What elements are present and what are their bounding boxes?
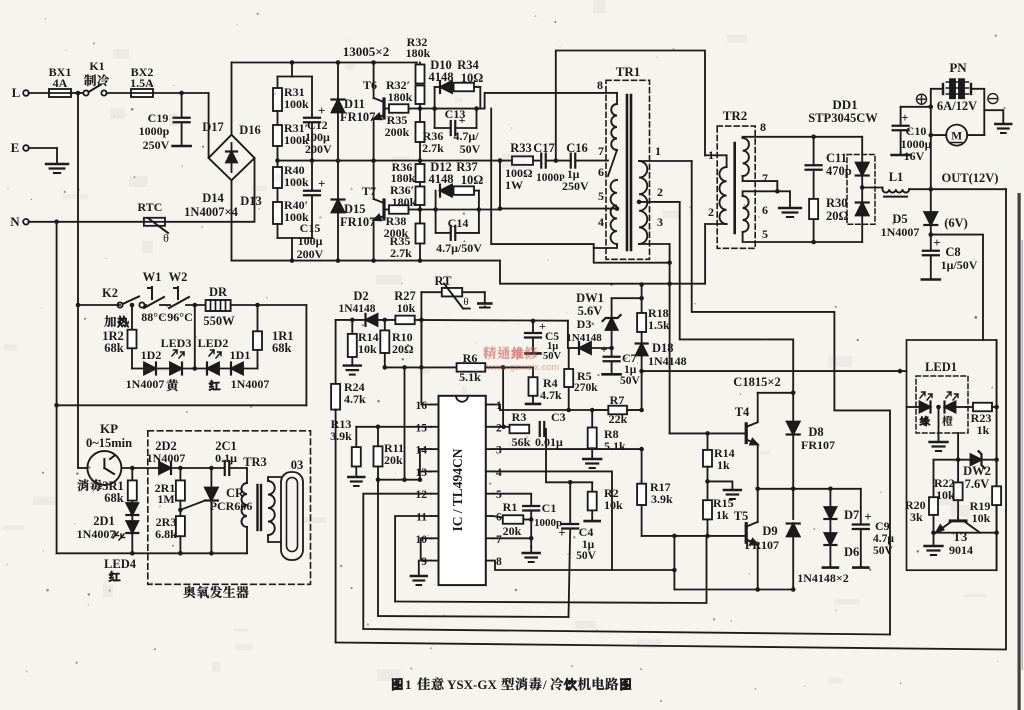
TR3 secondary <box>268 481 275 535</box>
wire <box>705 154 717 156</box>
node <box>929 187 934 192</box>
svg-text:6.8k: 6.8k <box>155 527 177 541</box>
capacitor C7 <box>611 348 613 356</box>
wire rail from BX1 node down to K2 <box>77 93 79 305</box>
svg-text:FR107: FR107 <box>340 215 375 229</box>
resistor R40 <box>273 167 282 188</box>
svg-text:4148: 4148 <box>429 70 454 84</box>
node <box>290 60 295 65</box>
wire C13 branch down-right <box>491 109 669 263</box>
wire bridge+ up to top bus <box>231 63 233 135</box>
node <box>568 480 573 485</box>
LED green <box>920 402 931 413</box>
svg-text:5.6V: 5.6V <box>578 304 603 318</box>
timer clock <box>87 451 121 485</box>
resistor R8 <box>591 410 593 428</box>
node <box>130 303 135 308</box>
node <box>275 158 280 163</box>
wire <box>419 104 421 122</box>
svg-text:200V: 200V <box>305 142 332 156</box>
resistor R3 <box>510 425 530 434</box>
diode 2D2 <box>159 462 171 474</box>
wire pin4 row <box>493 471 613 570</box>
motor M <box>946 125 967 146</box>
node <box>609 346 614 351</box>
resistor R27 <box>395 316 414 325</box>
svg-text:1D2: 1D2 <box>141 348 162 362</box>
svg-text:D17: D17 <box>202 120 224 134</box>
TR1 core <box>626 95 629 250</box>
svg-text:+: + <box>318 176 325 191</box>
wire R6 right down <box>485 366 533 368</box>
wire <box>604 92 618 94</box>
resistor 1R2 <box>131 305 133 330</box>
pin 15 stub <box>431 426 439 428</box>
resistor R17 <box>637 484 646 505</box>
diode D6 <box>824 533 836 545</box>
pin 11 stub <box>431 515 439 517</box>
resistor R32 <box>416 65 425 84</box>
node <box>193 366 198 371</box>
capacitor C13 <box>434 109 436 128</box>
transformer TR2 box <box>717 126 755 248</box>
wire <box>435 108 485 110</box>
wire PN left <box>931 89 943 135</box>
wire TR2 pin7 to gnd <box>743 176 778 191</box>
zener DW2 <box>971 454 982 465</box>
svg-text:D15: D15 <box>344 202 366 216</box>
svg-text:D7: D7 <box>844 508 859 522</box>
switch K2 <box>117 302 122 307</box>
wire <box>194 305 196 369</box>
pin 16 stub <box>431 404 439 406</box>
node <box>376 477 381 482</box>
svg-text:03: 03 <box>291 458 304 472</box>
node <box>554 158 559 163</box>
caption <box>392 679 402 691</box>
svg-text:FR107: FR107 <box>801 438 835 452</box>
TR1 secondary coil <box>639 161 647 244</box>
diode D12 <box>440 185 452 197</box>
LED4 <box>126 521 138 533</box>
node <box>418 207 423 212</box>
svg-text:2: 2 <box>496 422 502 434</box>
svg-text:15: 15 <box>416 422 428 434</box>
wire pin16 up <box>421 292 431 404</box>
ground LED mid <box>938 407 940 442</box>
pin 2 stub <box>486 426 493 428</box>
wire <box>907 406 919 408</box>
diode D9 <box>792 489 794 519</box>
diode D15 <box>337 161 339 199</box>
node <box>705 534 710 539</box>
svg-text:16V: 16V <box>904 149 925 163</box>
wire right edge rail <box>996 340 998 570</box>
svg-text:13: 13 <box>416 467 428 479</box>
transformer TR1 box <box>606 80 650 259</box>
wire C17C16 junction top loop <box>556 51 705 161</box>
svg-text:D11: D11 <box>344 97 365 111</box>
capacitor C12 <box>311 77 313 118</box>
wire heater loop bottom <box>57 404 307 406</box>
node <box>376 425 381 430</box>
label 加热 <box>104 315 116 327</box>
rectifier DD1 box <box>847 155 875 225</box>
svg-text:1N4007: 1N4007 <box>881 225 920 239</box>
thermistor RT <box>421 291 441 293</box>
resistor R36p 180k <box>416 187 425 206</box>
wire <box>419 182 421 187</box>
svg-text:LED2: LED2 <box>198 336 229 350</box>
node <box>130 551 135 556</box>
svg-text:C11: C11 <box>826 151 847 165</box>
wire <box>641 371 643 410</box>
wire pin3 row <box>493 448 642 450</box>
pin 14 stub <box>431 448 439 450</box>
diode DD1 top <box>856 163 869 176</box>
svg-text:D16: D16 <box>239 123 261 137</box>
wire N row <box>29 221 144 223</box>
wire bottom sterilize rail <box>57 552 247 554</box>
ground mid <box>708 481 733 490</box>
svg-text:STP3045CW: STP3045CW <box>808 111 878 125</box>
diode D5 <box>930 189 932 212</box>
wire pin5 row <box>493 494 532 505</box>
node <box>498 206 503 211</box>
svg-text:200V: 200V <box>297 247 324 261</box>
svg-text:0.1μ: 0.1μ <box>215 451 237 465</box>
node <box>566 408 571 413</box>
resistor 1R1 <box>257 305 259 331</box>
svg-text:OUT(12V): OUT(12V) <box>942 171 999 185</box>
wire bottom row4 outer <box>336 189 1006 649</box>
svg-text:2: 2 <box>708 205 714 219</box>
svg-text:T7: T7 <box>362 184 376 198</box>
svg-text:C15: C15 <box>300 221 321 235</box>
svg-text:PN: PN <box>949 60 967 75</box>
node <box>371 258 376 263</box>
svg-text:12: 12 <box>416 489 428 501</box>
pin 4 stub <box>486 470 493 472</box>
resistor R15 <box>707 481 709 500</box>
switch K1 <box>83 90 88 95</box>
minus terminal <box>988 94 998 104</box>
svg-text:180k: 180k <box>406 46 431 60</box>
TR1 primary coil upper <box>611 104 617 150</box>
ground T3 <box>933 533 935 546</box>
wire mid row to right <box>860 488 862 490</box>
svg-text:+: + <box>601 342 608 356</box>
svg-text:4.7μ: 4.7μ <box>873 533 894 545</box>
wire <box>277 224 279 238</box>
svg-text:5: 5 <box>496 489 502 501</box>
svg-text:3.9k: 3.9k <box>651 492 673 506</box>
wire TR2 pin6 <box>743 191 778 196</box>
svg-text:C4: C4 <box>579 525 594 539</box>
TR2 primary coil <box>719 167 726 224</box>
svg-text:4.7μ/50V: 4.7μ/50V <box>436 241 482 255</box>
svg-text:D14: D14 <box>202 191 224 205</box>
node <box>432 106 437 111</box>
wire pin7 row <box>493 537 532 539</box>
pin 6 stub <box>486 515 493 517</box>
svg-text:YSX-GX: YSX-GX <box>447 677 497 692</box>
wire T3 row <box>934 532 997 534</box>
node <box>350 318 355 323</box>
capacitor C14 <box>435 210 437 233</box>
svg-text:N: N <box>10 214 20 229</box>
node <box>178 466 183 471</box>
wire T4 emitter down <box>757 445 759 522</box>
capacitor C11 <box>813 137 815 164</box>
label 奥氧发生器 <box>183 586 195 598</box>
wire TR2 pin8 rail <box>743 137 863 138</box>
svg-text:9: 9 <box>421 556 427 568</box>
node <box>791 487 796 492</box>
svg-text:R1: R1 <box>503 500 518 514</box>
capacitor C15 <box>311 161 313 190</box>
ground PN minus <box>995 123 1011 125</box>
wire <box>186 304 206 306</box>
diode D3 <box>579 342 591 354</box>
svg-text:1k: 1k <box>977 423 990 437</box>
svg-text:4.7μ/: 4.7μ/ <box>453 129 479 143</box>
resistor R11 <box>377 427 379 447</box>
node <box>178 508 183 513</box>
label 消毒 <box>77 479 88 491</box>
wire OUT rail <box>909 188 1006 190</box>
resistor 2R1 <box>179 468 181 480</box>
svg-text:LED4: LED4 <box>104 557 137 571</box>
node <box>956 457 961 462</box>
capacitor C17 <box>540 154 542 168</box>
diode D8 <box>792 393 794 421</box>
resistor R5 <box>568 348 570 369</box>
wire DW1 top row <box>612 297 642 299</box>
svg-text:C9: C9 <box>875 519 890 533</box>
svg-text:100k: 100k <box>284 97 309 111</box>
wire <box>107 92 132 94</box>
svg-text:1N4148×2: 1N4148×2 <box>797 571 849 585</box>
LED3 <box>170 363 182 375</box>
wire pin8 row <box>493 561 675 570</box>
svg-text:22k: 22k <box>609 412 628 426</box>
wire bridge right to N <box>254 158 256 222</box>
svg-text:W2: W2 <box>169 270 188 284</box>
node <box>419 318 424 323</box>
svg-text:8: 8 <box>760 120 766 134</box>
wire pin11 <box>395 516 431 602</box>
svg-text:θ: θ <box>463 296 468 308</box>
svg-text:3k: 3k <box>910 510 923 524</box>
diode 1D1 <box>231 363 243 375</box>
svg-text:1D1: 1D1 <box>230 348 251 362</box>
svg-text:R5: R5 <box>577 369 592 383</box>
wire <box>78 467 87 469</box>
wire <box>861 176 863 204</box>
pin 3 stub <box>486 448 493 450</box>
wire 12V rail down <box>930 135 932 189</box>
svg-text:C16: C16 <box>566 141 588 155</box>
transistor T4 <box>745 424 748 443</box>
node E terminal <box>23 145 29 151</box>
wire pin6 row <box>493 516 503 518</box>
svg-text:K2: K2 <box>102 286 118 300</box>
diode 1D2 <box>144 363 156 375</box>
svg-text:1N4007: 1N4007 <box>231 377 270 391</box>
svg-text:50V: 50V <box>543 351 562 362</box>
wire pin13 lower row <box>378 479 420 481</box>
zener DW1 <box>611 330 613 348</box>
TR2 secondary lower <box>743 196 749 232</box>
svg-text:TR2: TR2 <box>723 108 748 123</box>
diode D10 <box>435 86 439 88</box>
svg-text:13005×2: 13005×2 <box>343 44 389 59</box>
svg-text:RTC: RTC <box>138 200 163 214</box>
transformer TR3 primary <box>246 468 248 483</box>
LED1 dashed box <box>916 376 968 433</box>
transistor T5 <box>745 524 748 543</box>
resistor R20 <box>933 460 935 498</box>
wire <box>153 92 209 94</box>
svg-text:10k: 10k <box>604 498 623 512</box>
svg-text:T4: T4 <box>735 405 750 419</box>
svg-text:6: 6 <box>598 165 604 179</box>
svg-text:1000: 1000 <box>536 172 559 184</box>
wire <box>419 205 421 224</box>
node <box>936 405 941 410</box>
node <box>994 405 999 410</box>
ground C1R1 <box>530 547 532 553</box>
wire C3 right down <box>545 429 592 482</box>
wire mid-bus to TR1 pin5 <box>500 161 608 209</box>
svg-text:+: + <box>864 509 871 524</box>
node <box>529 517 534 522</box>
node <box>639 282 644 287</box>
ground E <box>56 148 58 164</box>
node <box>178 551 183 556</box>
svg-text:+: + <box>459 113 466 127</box>
resistor R23 <box>966 406 973 408</box>
wire pin12 <box>363 494 431 629</box>
svg-text:7.6V: 7.6V <box>965 477 990 491</box>
battery PN <box>950 79 955 98</box>
svg-text:D8: D8 <box>808 425 823 439</box>
ground TR2 center tap <box>777 190 790 192</box>
pin 5 stub <box>486 493 493 495</box>
svg-text:1N4007: 1N4007 <box>147 451 186 465</box>
wire pin2 row <box>493 426 510 428</box>
resistor R10 <box>384 320 386 331</box>
resistor R31 <box>277 77 279 89</box>
ozone tube 03 <box>281 472 303 560</box>
node <box>755 487 760 492</box>
wire K2 rail down to timer <box>77 305 79 468</box>
svg-text:FR107: FR107 <box>340 110 375 124</box>
scan noise speckles <box>331 108 333 110</box>
capacitor C19 <box>181 93 183 117</box>
wire top bus <box>232 62 418 64</box>
wire TR1 pin3 <box>639 243 670 245</box>
svg-text:E: E <box>11 140 20 155</box>
resistor R36 2.7k <box>416 122 425 142</box>
resistor 2R3 <box>179 501 181 516</box>
bridge rectifier D13-D17 <box>209 135 255 181</box>
svg-text:5.1k: 5.1k <box>459 370 481 384</box>
svg-text:50V: 50V <box>620 375 641 387</box>
node <box>209 466 214 471</box>
svg-text:DR: DR <box>209 285 228 299</box>
svg-text:0~15min: 0~15min <box>86 436 132 450</box>
plus terminal <box>917 94 927 104</box>
resistor R4 <box>532 367 534 377</box>
capacitor C1 <box>523 505 539 507</box>
pin 12 stub <box>431 493 439 495</box>
pin 1 stub <box>486 404 493 406</box>
svg-text:D5: D5 <box>892 212 907 226</box>
fuse BX1 <box>49 89 71 97</box>
node <box>705 479 710 484</box>
svg-text:DD1: DD1 <box>832 97 857 112</box>
node <box>54 220 59 225</box>
svg-text:1.5A: 1.5A <box>130 76 154 90</box>
svg-text:96°C: 96°C <box>167 310 192 324</box>
wire <box>420 320 422 368</box>
wire <box>29 147 58 149</box>
wire TR2 pin5 rail <box>743 232 863 242</box>
wire <box>231 467 247 469</box>
svg-text:D3: D3 <box>577 317 592 331</box>
wire PN right <box>971 89 1003 124</box>
node <box>418 158 423 163</box>
node <box>418 106 423 111</box>
wire TR1 pin2 line B <box>680 202 794 393</box>
svg-text:DW1: DW1 <box>576 291 604 305</box>
pin 10 stub <box>431 537 439 539</box>
svg-text:270k: 270k <box>574 382 598 394</box>
svg-text:5: 5 <box>598 189 604 203</box>
node <box>54 403 59 408</box>
wire bottom row2 <box>378 616 569 617</box>
wire <box>165 221 253 223</box>
wire 6V <box>931 235 983 340</box>
svg-text:250V: 250V <box>562 179 589 193</box>
capacitor 2C1 <box>224 461 226 475</box>
inductor L1 <box>883 189 910 192</box>
resistor R33 <box>512 156 533 165</box>
wire pin1 row2 <box>500 409 642 411</box>
capacitor C4 <box>569 482 571 524</box>
resistor R36b 180k <box>419 161 421 164</box>
svg-text:R30: R30 <box>826 196 848 210</box>
wire <box>420 108 435 110</box>
node <box>755 587 760 592</box>
svg-text:1.5k: 1.5k <box>648 318 670 332</box>
resistor R24 <box>335 320 337 384</box>
svg-text:100k: 100k <box>284 175 309 189</box>
svg-text:C14: C14 <box>448 216 469 230</box>
svg-text:1N4148: 1N4148 <box>648 354 687 368</box>
svg-text:50V: 50V <box>576 550 597 562</box>
resistor R14b <box>707 433 709 450</box>
wire 6V into box right <box>982 339 984 341</box>
node <box>336 60 341 65</box>
svg-text:7: 7 <box>598 144 604 158</box>
node <box>811 135 816 140</box>
svg-text:C8: C8 <box>945 245 960 259</box>
LED2 <box>207 363 219 375</box>
wire pin4 exit <box>608 244 617 248</box>
